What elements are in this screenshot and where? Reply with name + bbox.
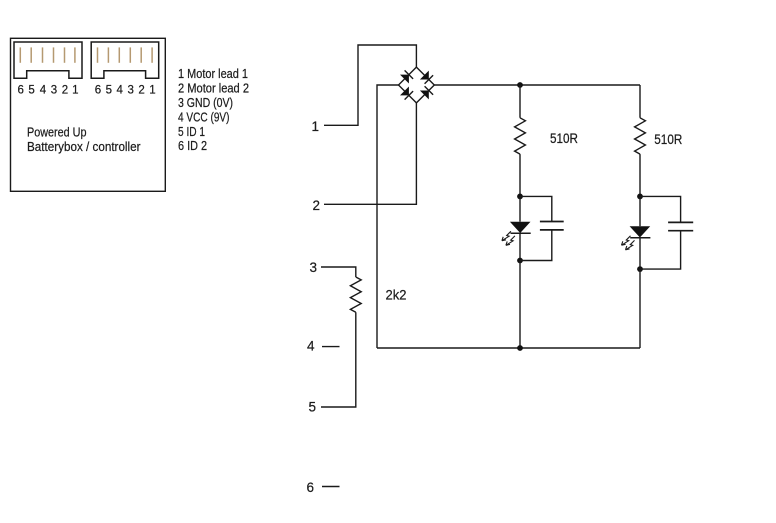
wire bridge plus top rail — [434, 84, 640, 86]
junction LED1 cathode node — [517, 258, 523, 264]
svg-text:1: 1 — [72, 85, 78, 97]
svg-text:1 Motor lead 1: 1 Motor lead 1 — [178, 66, 248, 81]
svg-text:510R: 510R — [654, 132, 682, 147]
connector box (Powered Up Batterybox / controller) — [11, 38, 166, 191]
resistor R1 510R — [515, 118, 526, 154]
connector J1 pin numbers 6 5 4 3 2 1 — [17, 85, 78, 97]
label 510R (R1) — [550, 131, 578, 146]
junction LED2 cathode node — [637, 266, 643, 272]
svg-text:1: 1 — [149, 85, 155, 97]
LED D2 cathode bar — [630, 237, 650, 239]
pin list label 1 Motor lead 1 — [178, 66, 248, 81]
terminal 3 label — [309, 260, 317, 275]
LED D2 triangle — [630, 226, 651, 237]
LED D1 triangle — [510, 222, 531, 233]
svg-text:4: 4 — [307, 339, 315, 354]
capacitor C2 plates — [668, 222, 693, 230]
wire branch2 to bottom rail — [639, 269, 641, 348]
svg-text:Powered Up: Powered Up — [27, 125, 87, 140]
svg-text:5: 5 — [308, 400, 316, 415]
bottom rail wire — [377, 347, 640, 349]
svg-text:2 Motor lead 2: 2 Motor lead 2 — [178, 81, 249, 96]
wire branch1 to bottom rail — [519, 261, 521, 349]
svg-text:2: 2 — [138, 85, 144, 97]
wire resistor R3 to terminal 5 — [321, 312, 356, 407]
wire node to LED1 — [519, 196, 521, 221]
pin list label 4 VCC (9V) — [178, 109, 230, 124]
connector J1 socket outline — [14, 42, 82, 78]
bridge diode bottom-left (anode left corner) — [400, 87, 413, 100]
terminal 5 label — [308, 400, 316, 415]
label 510R (R2) — [654, 132, 682, 147]
label 2k2 — [386, 288, 407, 303]
label Batterybox / controller — [27, 139, 141, 154]
wire R1 to LED1 node — [519, 154, 521, 196]
pin list label 3 GND (0V) — [178, 95, 233, 110]
bridge diode bottom-right (cathode right corner) — [420, 86, 433, 99]
wire top rail corner to R2 — [639, 85, 641, 118]
svg-text:Batterybox / controller: Batterybox / controller — [27, 139, 141, 154]
svg-text:5: 5 — [28, 85, 34, 97]
svg-text:1: 1 — [311, 119, 319, 134]
connector J1 pins 1-6 — [20, 47, 75, 62]
bridge diode top-left (anode left corner) — [400, 70, 413, 83]
svg-text:4: 4 — [116, 85, 123, 97]
svg-text:6: 6 — [17, 85, 23, 97]
bridge rectifier diamond — [399, 67, 435, 103]
wire terminal 2 to bridge AC bottom — [324, 103, 416, 204]
connector J2 socket outline — [91, 42, 159, 78]
capacitor C2 bottom connection wire — [640, 231, 681, 269]
LED D1 emission arrows — [502, 231, 515, 245]
terminal 2 label — [312, 198, 320, 213]
wire terminal 1 to bridge AC top — [324, 45, 416, 125]
terminal 4 stub — [322, 346, 340, 348]
svg-text:2: 2 — [62, 85, 68, 97]
terminal 6 label — [306, 480, 314, 495]
junction top rail / branch 1 — [517, 82, 523, 88]
pin list label 6 ID 2 — [178, 138, 207, 153]
capacitor C2 top connection wire — [640, 196, 681, 222]
connector J2 pins 1-6 — [98, 47, 153, 62]
terminal 6 stub — [322, 486, 340, 488]
resistor R2 510R — [635, 118, 646, 154]
wire LED2 to bottom node — [639, 238, 641, 269]
svg-text:4: 4 — [40, 85, 47, 97]
pin list label 2 Motor lead 2 — [178, 81, 249, 96]
LED D2 emission arrows — [622, 236, 635, 250]
junction LED1 anode node — [517, 194, 523, 200]
bridge diode top-right (cathode right corner) — [420, 71, 433, 84]
wire R2 to LED2 node — [639, 154, 641, 196]
wire top rail to R1 — [519, 85, 521, 118]
svg-text:6: 6 — [95, 85, 101, 97]
svg-text:2k2: 2k2 — [386, 288, 407, 303]
junction LED2 anode node — [637, 194, 643, 200]
svg-text:3: 3 — [309, 260, 317, 275]
svg-text:3 GND (0V): 3 GND (0V) — [178, 95, 233, 110]
svg-text:2: 2 — [312, 198, 320, 213]
svg-text:3: 3 — [51, 85, 57, 97]
wire bridge minus to bottom rail — [377, 85, 399, 348]
svg-text:510R: 510R — [550, 131, 578, 146]
pin list label 5 ID 1 — [178, 124, 205, 139]
terminal 4 label — [307, 339, 315, 354]
junction bottom rail / branch 1 — [517, 345, 523, 351]
svg-text:5: 5 — [106, 85, 112, 97]
capacitor C1 top connection wire — [520, 196, 552, 221]
wire terminal 3 to resistor R3 — [321, 267, 356, 277]
terminal 1 label — [311, 119, 319, 134]
svg-text:3: 3 — [127, 85, 133, 97]
svg-text:6: 6 — [306, 480, 314, 495]
capacitor C1 plates — [540, 222, 564, 230]
svg-text:6 ID 2: 6 ID 2 — [178, 138, 207, 153]
capacitor C1 bottom connection wire — [520, 230, 552, 261]
svg-text:4 VCC (9V): 4 VCC (9V) — [178, 109, 230, 124]
wire node to LED2 — [639, 196, 641, 226]
label Powered Up — [27, 125, 87, 140]
connector J2 pin numbers 6 5 4 3 2 1 — [95, 85, 156, 97]
resistor R3 2k2 — [350, 277, 361, 312]
wire LED1 to bottom node — [519, 233, 521, 260]
svg-text:5 ID 1: 5 ID 1 — [178, 124, 205, 139]
LED D1 cathode bar — [511, 232, 531, 234]
